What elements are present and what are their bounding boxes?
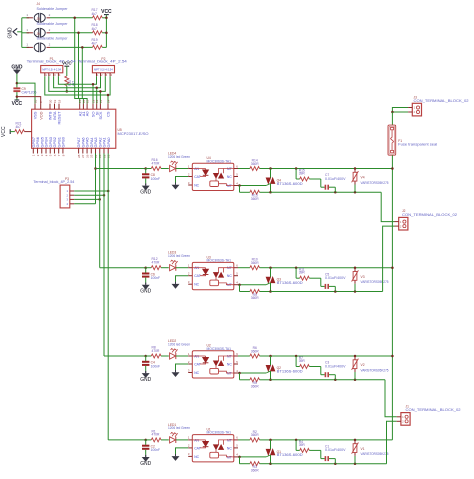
wire GND net to U5 VSS [17, 83, 35, 104]
svg-text:0.01uF/400V: 0.01uF/400V [325, 276, 346, 280]
gate element inside U4 [210, 181, 219, 187]
svg-text:100nF: 100nF [151, 276, 161, 280]
pin 25 GPA4 of U5 [90, 148, 92, 153]
triac inside U4 [219, 169, 234, 174]
wire GPA3 drive down to channel 4 [95, 154, 97, 204]
resistor R6 360R [238, 355, 250, 357]
svg-text:360R: 360R [251, 433, 260, 437]
svg-text:VARISTORS05K275: VARISTORS05K275 [361, 452, 389, 456]
svg-text:GPA0: GPA0 [106, 137, 111, 148]
svg-text:BT136S-600D: BT136S-600D [277, 281, 304, 285]
resistor R15 39R (snubber) [295, 169, 297, 180]
svg-text:1206 led Green: 1206 led Green [168, 254, 190, 258]
svg-text:CON_TERMINAL_BLOCK_02: CON_TERMINAL_BLOCK_02 [402, 213, 457, 217]
svg-text:4k7: 4k7 [92, 12, 97, 16]
svg-text:MPT 0,5/ 4-2,54: MPT 0,5/ 4-2,54 [94, 68, 113, 72]
svg-text:1206 led Green: 1206 led Green [168, 155, 190, 159]
led LED1 1206 led Green [170, 437, 176, 443]
led inside U4 [192, 168, 205, 170]
pullup resistor R19 4k7 [93, 45, 103, 49]
pin 21 GPA0 of U5 [107, 148, 109, 153]
pin 24 GPA3 of U5 [95, 148, 97, 153]
wire channel 2 output to J1 pin1 [385, 380, 397, 417]
capacitor C1 0.01uF/400V (snubber) [320, 450, 322, 458]
svg-text:V3: V3 [361, 275, 365, 279]
capacitor C8 100nF [145, 169, 147, 174]
capacitor C7 0.01uF/400V (snubber) [320, 179, 322, 187]
solderable jumper J5 [34, 28, 39, 37]
wire channel 3 output to J2 pin2 [383, 226, 395, 291]
resistor R12 470R [146, 267, 152, 269]
wire channel 4 output to J2 pin1 [381, 192, 394, 221]
capacitor C4 100nF [145, 356, 147, 361]
pin 2 GPB6 of U5 [37, 148, 39, 153]
pin 3 GPB5 of U5 [41, 148, 43, 153]
svg-text:470R: 470R [152, 433, 161, 437]
wire U2 CAT to GND [176, 364, 189, 370]
wire GPA1 drive down to channel 2 [103, 154, 105, 357]
wire U1 CAT to GND [176, 448, 189, 454]
pin 26 GPA5 of U5 [86, 148, 88, 153]
svg-text:J5: J5 [37, 17, 41, 21]
optotriac U3 MOC3063S-TA1 [192, 262, 234, 289]
wire jumper J5 pin2 to pullup [50, 32, 93, 34]
optotriac U1 MOC3063S-TA1 [192, 435, 234, 462]
svg-text:J4: J4 [37, 2, 41, 6]
wire GPA2 drive down to channel 3 [99, 154, 101, 268]
svg-text:1206 led Green: 1206 led Green [168, 426, 190, 430]
svg-text:NC: NC [227, 274, 232, 278]
wire LED3 to U3 pin 1 [176, 267, 188, 269]
terminal block P3 Terminal_block_4P_2.54 [60, 185, 70, 208]
triac Q4 BT136S-600D [270, 169, 272, 178]
svg-text:NC: NC [194, 371, 199, 375]
pin 7 GPB1 of U5 [58, 148, 60, 153]
wire address A2 from jumper to U5 [75, 18, 80, 104]
svg-text:39R: 39R [299, 443, 306, 447]
ic U5 MCP23017-E/SO [32, 109, 116, 148]
wire channel bottom line [271, 463, 387, 465]
resistor R14 360R [238, 168, 250, 170]
pin 11 SCK of U5 [99, 104, 101, 110]
wire bus P1 pin4 / P2 pin4 to U5 [45, 76, 110, 95]
svg-text:NC: NC [194, 183, 199, 187]
svg-text:V2: V2 [361, 363, 365, 367]
pin 27 GPA6 of U5 [82, 148, 84, 153]
wire VCC net to U5 VDD (red) [17, 97, 41, 104]
svg-text:470R: 470R [152, 349, 161, 353]
resistor R20 4k7 (vertical) [66, 66, 68, 76]
wire AC bus from fuse [391, 155, 393, 440]
resistor R7 39R (snubber) [295, 356, 297, 367]
svg-text:MCP23017-E/SO: MCP23017-E/SO [118, 132, 149, 136]
wire GND bus to jumpers [17, 31, 22, 33]
varistor V2 VARISTORS05K275 [354, 356, 356, 360]
capacitor C9 CAP1206 [13, 87, 20, 89]
wire jumper J6 pin1 [22, 46, 29, 48]
ground symbol GND (C4) [142, 373, 150, 378]
svg-text:39R: 39R [299, 271, 306, 275]
wire P3 pin3 [70, 198, 74, 200]
gate element inside U2 [210, 368, 219, 374]
svg-text:360R: 360R [251, 385, 260, 389]
svg-text:CAT: CAT [194, 274, 201, 278]
pin 28 GPA7 of U5 [78, 148, 80, 153]
svg-text:4k7: 4k7 [92, 27, 97, 31]
pullup resistor R18 4k7 [93, 31, 103, 35]
pin 20 INTB of U5 [49, 104, 51, 110]
pin 15 A0 of U5 [86, 104, 88, 110]
svg-text:470R: 470R [152, 161, 161, 165]
wire jumper J6 pin2 to pullup [50, 46, 93, 48]
svg-text:GND: GND [140, 289, 151, 295]
svg-text:BT136S-600D: BT136S-600D [277, 182, 304, 186]
pin 22 GPA1 of U5 [103, 148, 105, 153]
svg-text:11: 11 [99, 100, 103, 103]
ground symbol GND (U2 CAT) [172, 372, 180, 377]
svg-text:CAT: CAT [194, 362, 201, 366]
resistor R13 360R (gate) [239, 186, 241, 193]
resistor R4 39R (snubber) [295, 440, 297, 451]
svg-text:Solderable Jumper: Solderable Jumper [37, 22, 69, 26]
resistor R16 470R [146, 168, 152, 170]
wire P3 pin2 [70, 194, 74, 196]
svg-text:360R: 360R [251, 261, 260, 265]
resistor R5 360R (gate) [239, 373, 241, 380]
pin 17 A2 of U5 [79, 104, 81, 110]
wire channel input line (R8 net) [104, 355, 146, 357]
pin 9 VDD of U5 [40, 104, 42, 110]
ground symbol GND (U3 CAT) [172, 284, 180, 289]
wire channel bottom line [271, 379, 386, 381]
svg-text:NC: NC [227, 175, 232, 179]
wire GND to C9 [16, 74, 18, 87]
svg-text:MOC3063S-TA1: MOC3063S-TA1 [207, 347, 232, 351]
wire address A1 from jumper to U5 [79, 33, 84, 104]
triac inside U2 [219, 356, 234, 361]
wire channel 1 output to J1 pin2 [387, 421, 397, 463]
ground symbol GND (jumper select bus) [13, 28, 17, 35]
svg-text:39R: 39R [299, 359, 306, 363]
svg-text:Terminal_block_4P_2.54: Terminal_block_4P_2.54 [78, 60, 127, 64]
svg-text:NC: NC [227, 446, 232, 450]
svg-text:NC: NC [194, 455, 199, 459]
svg-text:GND: GND [140, 461, 151, 467]
svg-text:15: 15 [86, 99, 90, 103]
pin 1 GPB7 of U5 [32, 148, 34, 153]
wire bus P1 pin3 / P2 pin3 to U5 [49, 76, 106, 91]
svg-text:VARISTORS05K275: VARISTORS05K275 [361, 368, 389, 372]
led LED3 1206 led Green [170, 265, 176, 271]
resistor R11 39R (snubber) [295, 268, 297, 279]
svg-text:Solderable Jumper: Solderable Jumper [37, 7, 69, 11]
svg-text:4k7: 4k7 [16, 125, 21, 129]
ground symbol GND (U4 CAT) [172, 185, 180, 190]
svg-text:A0: A0 [85, 111, 90, 117]
wire jumper J5 pin1 [22, 32, 29, 34]
svg-text:MOC3063S-TA1: MOC3063S-TA1 [207, 431, 232, 435]
svg-text:MOC3063S-TA1: MOC3063S-TA1 [207, 159, 232, 163]
optotriac U2 MOC3063S-TA1 [192, 351, 234, 378]
resistor R3 360R (gate) [239, 457, 241, 464]
pin 8 GPB0 of U5 [62, 148, 64, 153]
wire LED1 to U1 pin 1 [176, 439, 188, 441]
gate element inside U3 [210, 280, 219, 286]
svg-text:CON_TERMINAL_BLOCK_02: CON_TERMINAL_BLOCK_02 [406, 408, 461, 412]
svg-text:Fuse transparent seal: Fuse transparent seal [398, 143, 437, 147]
wire VCC rail [105, 15, 107, 48]
svg-text:SCK: SCK [98, 111, 103, 119]
wire C4 to GND [145, 366, 147, 371]
svg-text:VARISTORS05K275: VARISTORS05K275 [361, 280, 389, 284]
wire U4 CAT to GND [176, 177, 189, 183]
svg-text:CAT: CAT [194, 175, 201, 179]
terminal block J2 CON_TERMINAL_BLOCK_02 [399, 217, 408, 230]
pin 13 SO of U5 [92, 104, 94, 110]
ground symbol GND (C2) [142, 457, 150, 462]
svg-text:Solderable Jumper: Solderable Jumper [37, 37, 69, 41]
pin 10 VSS of U5 [34, 104, 36, 110]
wire channel top line to bus [271, 267, 393, 269]
wire LED2 to U2 pin 1 [176, 355, 188, 357]
wire channel input line (R12 net) [100, 267, 146, 269]
svg-text:V1: V1 [361, 447, 365, 451]
svg-text:RESET: RESET [57, 111, 62, 125]
svg-text:Terminal_block_4P_2.54: Terminal_block_4P_2.54 [33, 180, 74, 184]
capacitor C5 0.01uF/400V (snubber) [320, 278, 322, 286]
ground symbol GND (C8) [142, 186, 150, 191]
pin 4 GPB4 of U5 [45, 148, 47, 153]
terminal block J3 CON_TERMINAL_BLOCK_02 [412, 103, 421, 116]
wire C9 to VCC [16, 92, 18, 100]
ground symbol GND (U1 CAT) [172, 456, 180, 461]
wire U2 pin4 to gate [238, 372, 266, 374]
svg-text:BT136S-600D: BT136S-600D [277, 453, 304, 457]
svg-text:CS: CS [106, 111, 111, 117]
capacitor C3 0.01uF/400V (snubber) [320, 367, 322, 375]
pin 23 GPA2 of U5 [99, 148, 101, 153]
resistor R9 360R (gate) [239, 285, 241, 292]
svg-text:VCC: VCC [12, 101, 23, 107]
svg-text:100nF: 100nF [151, 448, 161, 452]
svg-text:VARISTORS05K275: VARISTORS05K275 [361, 181, 389, 185]
terminal block P2 Terminal_block_4P_2.54 [92, 66, 114, 73]
svg-text:MPT 0,5/ 4-2,54: MPT 0,5/ 4-2,54 [42, 68, 61, 72]
svg-text:360R: 360R [251, 197, 260, 201]
led LED2 1206 led Green [170, 353, 176, 359]
pullup resistor R17 4k7 [93, 16, 103, 20]
wire LED4 to U4 pin 1 [176, 168, 188, 170]
triac inside U1 [219, 440, 234, 445]
wire channel input line (R16 net) [96, 168, 146, 170]
wire channel bottom line [271, 291, 383, 293]
svg-text:J6: J6 [37, 32, 41, 36]
svg-text:VCC: VCC [101, 9, 112, 15]
svg-text:GPB0: GPB0 [61, 136, 66, 147]
pin 18 RESET of U5 [58, 104, 60, 110]
svg-text:0.01uF/400V: 0.01uF/400V [325, 448, 346, 452]
varistor V1 VARISTORS05K275 [354, 440, 356, 444]
solderable jumper J4 [34, 13, 39, 22]
svg-text:360R: 360R [251, 296, 260, 300]
pin 16 A1 of U5 [82, 104, 84, 110]
resistor R8 470R [146, 355, 152, 357]
svg-text:100nF: 100nF [151, 177, 161, 181]
svg-text:NC: NC [194, 283, 199, 287]
svg-text:GND: GND [140, 377, 151, 383]
svg-text:100nF: 100nF [151, 364, 161, 368]
svg-text:GND: GND [140, 189, 151, 195]
pin 19 INTA of U5 [54, 104, 56, 110]
svg-text:VSS: VSS [33, 111, 38, 119]
wire P3 pin4 [70, 203, 74, 205]
varistor V4 VARISTORS05K275 [354, 169, 356, 173]
svg-text:CAP1206: CAP1206 [22, 91, 37, 95]
pin 6 GPB2 of U5 [53, 148, 55, 153]
wire C6 to GND [145, 278, 147, 283]
wire jumper J4 pin1 [22, 17, 29, 19]
svg-text:GND: GND [8, 27, 14, 39]
pin 12 SI of U5 [96, 104, 98, 110]
svg-text:10: 10 [33, 99, 37, 103]
wire bus P1 pin2 / P2 pin2 to U5 [54, 76, 101, 88]
led inside U1 [192, 439, 205, 441]
wire U3 pin4 to gate [238, 284, 266, 286]
svg-text:20: 20 [48, 99, 52, 103]
svg-text:VDD: VDD [38, 111, 43, 119]
wire jumper J4 pin2 to pullup [50, 17, 93, 19]
solderable jumper J6 [34, 43, 39, 52]
wire bus P1 pin1 / P2 pin1 to U5 [58, 76, 96, 84]
wire P3 pin1 [70, 190, 74, 192]
svg-text:360R: 360R [251, 349, 260, 353]
resistor R10 360R [238, 267, 250, 269]
resistor R2 360R [238, 439, 250, 441]
wire channel top line to bus [271, 439, 393, 441]
capacitor C6 100nF [145, 268, 147, 273]
gate element inside U1 [210, 452, 219, 458]
svg-text:V4: V4 [361, 176, 365, 180]
ground symbol GND (C6) [142, 285, 150, 290]
svg-text:19: 19 [53, 99, 57, 103]
wire AC input to fuse [392, 108, 408, 113]
wire channel bottom line [271, 191, 382, 193]
wire U1 pin4 to gate [238, 456, 266, 458]
optotriac U4 MOC3063S-TA1 [192, 163, 234, 190]
wire address A0 from jumper to U5 [82, 47, 87, 103]
terminal block J1 CON_TERMINAL_BLOCK_02 [401, 413, 410, 426]
svg-text:0.01uF/400V: 0.01uF/400V [325, 364, 346, 368]
triac inside U3 [219, 268, 234, 273]
svg-text:360R: 360R [251, 468, 260, 472]
wire channel top line to bus [271, 355, 393, 357]
svg-text:BT136S-600D: BT136S-600D [277, 369, 304, 373]
led LED4 1206 led Green [170, 165, 176, 171]
wire C8 to GND [145, 178, 147, 183]
wire channel input line (R1 net) [108, 439, 146, 441]
svg-text:1206 led Green: 1206 led Green [168, 342, 190, 346]
triac Q2 BT136S-600D [270, 356, 272, 365]
svg-text:MOC3063S-TA1: MOC3063S-TA1 [207, 259, 232, 263]
svg-text:CON_TERMINAL_BLOCK_02: CON_TERMINAL_BLOCK_02 [414, 99, 469, 103]
svg-text:14: 14 [106, 99, 110, 103]
terminal block P1 Terminal_block_4P_2.54 [41, 66, 63, 73]
svg-text:4k7: 4k7 [92, 42, 97, 46]
svg-text:470R: 470R [152, 261, 161, 265]
pin 14 CS of U5 [107, 104, 109, 110]
led inside U2 [192, 355, 205, 357]
wire U4 pin4 to gate [238, 185, 266, 187]
svg-text:4k7: 4k7 [72, 81, 76, 86]
triac Q3 BT136S-600D [270, 268, 272, 277]
svg-text:VCC: VCC [1, 126, 7, 137]
svg-text:VCC: VCC [62, 60, 72, 65]
svg-text:360R: 360R [251, 162, 260, 166]
led inside U3 [192, 267, 205, 269]
fuse F1 Fuse transparent seal [388, 125, 396, 155]
pin 5 GPB3 of U5 [49, 148, 51, 153]
svg-text:39R: 39R [299, 171, 306, 175]
svg-text:CAT: CAT [194, 446, 201, 450]
wire GPA0 drive down to channel 1 [107, 154, 109, 440]
power symbol VCC (C9) [15, 99, 20, 101]
varistor V3 VARISTORS05K275 [354, 268, 356, 272]
svg-text:18: 18 [57, 99, 61, 103]
svg-text:0.01uF/400V: 0.01uF/400V [325, 177, 346, 181]
capacitor C2 100nF [145, 440, 147, 445]
wire U3 CAT to GND [176, 276, 189, 282]
svg-text:NC: NC [227, 362, 232, 366]
resistor R1 470R [146, 439, 152, 441]
wire C2 to GND [145, 450, 147, 455]
triac Q1 BT136S-600D [270, 440, 272, 449]
wire channel top line to bus [271, 168, 393, 170]
